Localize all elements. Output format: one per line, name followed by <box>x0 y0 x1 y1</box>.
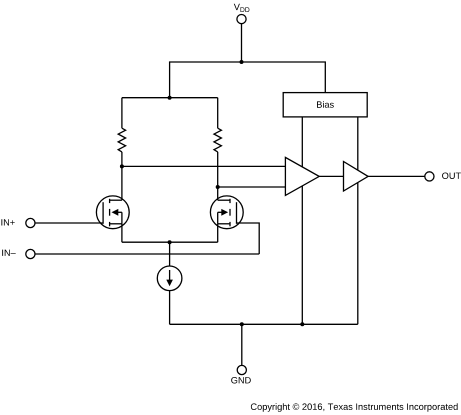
wire bias line 1 <box>301 117 303 324</box>
wire VDD stem <box>241 24 243 62</box>
resistor R-right <box>214 98 221 187</box>
label copyright <box>251 403 458 412</box>
wire interstage <box>319 175 343 177</box>
wire rail B to amp <box>218 186 286 188</box>
current source I1 <box>157 266 182 291</box>
transistor M1 <box>96 196 129 229</box>
terminal IN- <box>26 249 35 258</box>
wire resistor top rail <box>122 97 218 99</box>
wire IN+ to M1 gate <box>35 222 103 224</box>
label OUT <box>442 173 461 180</box>
op-amp U1 <box>285 157 319 195</box>
wire rail A to amp <box>122 165 286 167</box>
wire M2 drain <box>217 187 219 200</box>
block Bias <box>283 93 367 117</box>
wire M2 source <box>217 224 219 242</box>
node junction bias1 / bottom rail <box>300 322 304 326</box>
transistor M2 <box>210 196 243 229</box>
label Bias <box>317 101 334 108</box>
terminal GND <box>237 365 246 374</box>
label IN- <box>2 250 16 256</box>
label VDD <box>234 4 250 12</box>
node junction resistor rail <box>168 96 172 100</box>
wire current source top stem <box>169 242 171 266</box>
wire GND stem <box>241 324 243 365</box>
wire bias line 2 <box>357 117 359 324</box>
wire M1 source <box>121 224 123 242</box>
terminal VDD <box>237 15 246 24</box>
node junction left resistor / rail A <box>120 164 124 168</box>
wire source rail <box>122 241 218 243</box>
terminal IN+ <box>26 218 35 227</box>
node junction GND / bottom rail <box>240 322 244 326</box>
op-amp U2 <box>344 162 369 192</box>
terminal OUT <box>425 172 434 181</box>
wire output <box>368 175 425 177</box>
wire current source bottom stem <box>169 291 171 325</box>
wire M1 drain <box>121 166 123 200</box>
wire top rail <box>170 62 326 98</box>
node junction VDD/top rail <box>240 60 244 64</box>
wire bottom rail <box>170 323 358 325</box>
label GND <box>231 377 251 384</box>
node junction source rail / current source <box>168 240 172 244</box>
resistor R-left <box>118 98 125 167</box>
wire IN- line <box>35 253 259 255</box>
label IN+ <box>1 219 14 225</box>
wire M2 gate <box>237 223 260 254</box>
node junction right drain / rail B <box>216 185 220 189</box>
